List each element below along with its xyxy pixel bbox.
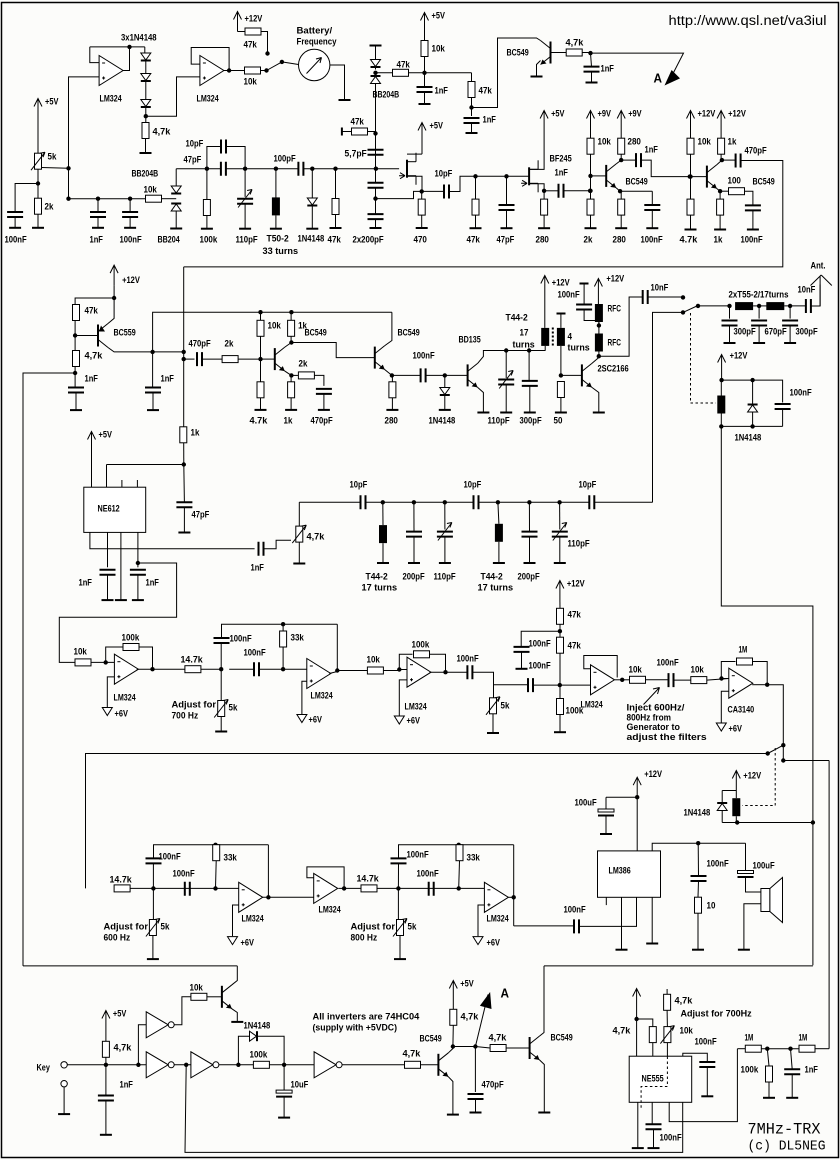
wire bbox=[91, 452, 93, 488]
capacitor 1nF bbox=[145, 388, 161, 393]
transistor BC549 bbox=[706, 166, 708, 188]
antenna bbox=[811, 275, 832, 306]
svg-text:4,7k: 4,7k bbox=[489, 1033, 507, 1044]
wire bbox=[729, 306, 731, 319]
junction bbox=[527, 500, 531, 504]
wire bias rail bbox=[153, 312, 392, 352]
ground bbox=[470, 227, 482, 229]
wire emitter bbox=[478, 387, 484, 412]
svg-text:+12V: +12V bbox=[245, 14, 263, 25]
wire bbox=[238, 31, 245, 33]
wire varactor column bbox=[375, 83, 377, 169]
ground bbox=[724, 342, 736, 344]
svg-text:LM324: LM324 bbox=[487, 914, 510, 925]
wire bbox=[514, 925, 574, 927]
svg-text:100nF: 100nF bbox=[407, 850, 429, 861]
svg-text:10k: 10k bbox=[698, 137, 712, 148]
svg-text:100k: 100k bbox=[122, 633, 140, 644]
pin wire bbox=[637, 1102, 639, 1147]
ground +6V bbox=[102, 708, 112, 716]
wire bbox=[543, 191, 545, 199]
IC NE612 bbox=[84, 487, 146, 532]
svg-text:BB204B: BB204B bbox=[132, 169, 159, 180]
wire bbox=[697, 881, 700, 897]
svg-text:100nF: 100nF bbox=[564, 905, 586, 916]
svg-text:33k: 33k bbox=[467, 853, 481, 864]
pin wire bbox=[621, 897, 623, 949]
wire base bbox=[261, 358, 275, 360]
svg-text:10k: 10k bbox=[190, 983, 204, 994]
junction bbox=[696, 841, 700, 845]
junction bbox=[104, 660, 108, 664]
resistor 100k bbox=[123, 644, 139, 651]
junction bbox=[727, 304, 731, 308]
ground bbox=[753, 342, 765, 344]
svg-text:BB204: BB204 bbox=[158, 235, 181, 246]
capacitor 1nF bbox=[68, 388, 84, 393]
wire bbox=[697, 843, 699, 876]
ground bbox=[585, 227, 597, 229]
ground bbox=[685, 229, 697, 231]
wire bbox=[674, 679, 691, 681]
pin wire bbox=[106, 465, 108, 488]
wire bbox=[737, 1048, 745, 1050]
wire bbox=[342, 131, 352, 133]
wire bbox=[238, 358, 260, 360]
svg-text:10pF: 10pF bbox=[464, 480, 482, 491]
svg-text:+6V: +6V bbox=[729, 724, 743, 735]
svg-text:1k: 1k bbox=[728, 137, 737, 148]
wire key rail bbox=[23, 965, 237, 967]
wire bbox=[560, 346, 562, 376]
wire collector bbox=[592, 358, 599, 364]
wire bbox=[590, 215, 592, 228]
svg-text:10pF: 10pF bbox=[350, 480, 368, 491]
svg-text:110pF: 110pF bbox=[434, 572, 456, 583]
wire + input bbox=[721, 691, 729, 722]
ground bbox=[370, 227, 382, 229]
junction pot tap bbox=[66, 166, 70, 170]
inductor RFC bbox=[595, 304, 603, 322]
wire bbox=[129, 217, 131, 228]
svg-text:1k: 1k bbox=[191, 428, 200, 439]
wire bbox=[591, 72, 593, 82]
wire collector bbox=[616, 160, 621, 164]
inverter 74HC04 bbox=[191, 1052, 213, 1078]
resistor 47k bbox=[472, 199, 479, 215]
wire bbox=[474, 1047, 476, 1093]
junction bbox=[688, 174, 692, 178]
ground bbox=[714, 229, 726, 231]
capacitor 1nF bbox=[98, 1096, 114, 1101]
wire - input bbox=[721, 678, 729, 680]
trimmer 4,7k bbox=[296, 526, 303, 542]
junction bbox=[182, 350, 186, 354]
wire bbox=[229, 668, 254, 670]
svg-text:100nF: 100nF bbox=[413, 351, 435, 362]
wire output bbox=[263, 896, 314, 898]
wire bbox=[377, 887, 484, 889]
ground bbox=[615, 227, 627, 229]
wire audio to filter2 bbox=[86, 754, 768, 889]
resistor 10k bbox=[75, 659, 91, 666]
ground bbox=[616, 949, 628, 951]
resistor 47k bbox=[332, 199, 339, 215]
ground bbox=[632, 1147, 644, 1149]
supply +12V bbox=[717, 111, 725, 131]
svg-text:50: 50 bbox=[554, 416, 563, 427]
svg-text:300pF: 300pF bbox=[796, 327, 818, 338]
capacitor 1nF bbox=[784, 1069, 800, 1074]
resistor 100 bbox=[729, 188, 745, 195]
resistor 10k bbox=[691, 677, 707, 684]
ground bbox=[470, 1112, 482, 1114]
wire collector bbox=[385, 312, 392, 345]
svg-text:300pF: 300pF bbox=[520, 416, 542, 427]
supply +5V bbox=[421, 13, 429, 33]
svg-text:T50-2: T50-2 bbox=[267, 234, 289, 245]
wire bbox=[63, 1087, 65, 1114]
svg-text:LM324: LM324 bbox=[319, 905, 342, 916]
svg-text:+5V: +5V bbox=[113, 1009, 127, 1020]
resistor 47k bbox=[557, 637, 564, 653]
svg-text:A: A bbox=[654, 71, 663, 86]
varactor BB204B upper bbox=[371, 60, 381, 67]
ground bbox=[477, 412, 489, 414]
svg-text:100nF: 100nF bbox=[529, 639, 551, 650]
wire bbox=[145, 82, 147, 100]
wire base bbox=[551, 52, 567, 54]
wire bbox=[559, 537, 561, 563]
diode 1N4148 bbox=[440, 388, 450, 395]
svg-text:2x200pF: 2x200pF bbox=[353, 235, 384, 246]
junction bbox=[335, 668, 339, 672]
capacitor 100nF bbox=[574, 919, 579, 933]
svg-text:10pF: 10pF bbox=[186, 139, 204, 150]
transistor BD135 bbox=[467, 364, 469, 386]
wire drain bbox=[407, 153, 422, 155]
svg-text:1N4148: 1N4148 bbox=[298, 234, 325, 245]
wire rail down bbox=[336, 624, 338, 671]
transistor BC549 bbox=[529, 1037, 531, 1059]
capacitor 100nF bbox=[421, 368, 426, 382]
wire bbox=[244, 169, 246, 197]
wire bbox=[244, 204, 246, 229]
varactor BB204 upper bbox=[171, 186, 181, 193]
ground bbox=[692, 949, 704, 951]
wire bbox=[375, 46, 377, 60]
wire source bbox=[407, 176, 422, 191]
junction bbox=[73, 333, 77, 337]
wire output bbox=[752, 684, 767, 686]
svg-text:100nF: 100nF bbox=[417, 869, 439, 880]
resistor 14.7k bbox=[114, 885, 130, 892]
svg-text:LM324: LM324 bbox=[197, 94, 220, 105]
wire bbox=[559, 502, 561, 529]
wire bbox=[735, 791, 737, 799]
wire bbox=[620, 131, 622, 139]
junction switch common bbox=[280, 60, 284, 64]
wire pot tap bbox=[42, 167, 69, 170]
svg-text:100k: 100k bbox=[200, 235, 218, 246]
svg-text:turns: turns bbox=[513, 340, 535, 351]
svg-text:+5V: +5V bbox=[460, 979, 474, 990]
svg-text:10k: 10k bbox=[629, 665, 643, 676]
wire bbox=[498, 542, 500, 563]
resistor 4,7k bbox=[664, 994, 671, 1010]
op-amp LM324 bbox=[239, 882, 263, 912]
wire bbox=[706, 1067, 708, 1096]
svg-text:2xT55-2/17turns: 2xT55-2/17turns bbox=[729, 290, 789, 301]
svg-text:5k: 5k bbox=[48, 152, 57, 163]
svg-text:1N4148: 1N4148 bbox=[684, 808, 711, 819]
resistor 10k bbox=[245, 67, 261, 74]
pin bbox=[136, 480, 138, 487]
svg-text:100k: 100k bbox=[412, 640, 430, 651]
relay coil bbox=[732, 798, 740, 816]
transistor BC549 Q2 bbox=[274, 348, 276, 370]
wire bbox=[479, 501, 590, 503]
svg-text:47pF: 47pF bbox=[497, 235, 515, 246]
wire bbox=[698, 305, 730, 307]
trimmer 5k bbox=[490, 698, 497, 714]
junction bbox=[281, 622, 285, 626]
wire to meter bbox=[282, 62, 299, 65]
resistor 4,7k bbox=[566, 49, 582, 56]
svg-text:+6V: +6V bbox=[241, 938, 255, 949]
svg-text:10k: 10k bbox=[244, 77, 258, 88]
wire collector bbox=[717, 160, 722, 165]
inductor T55-2 bbox=[735, 302, 753, 310]
wire bbox=[105, 1101, 107, 1135]
wire emitter bbox=[285, 371, 292, 375]
ground bbox=[170, 228, 182, 230]
svg-text:10uF: 10uF bbox=[291, 1080, 309, 1091]
svg-text:10: 10 bbox=[707, 901, 716, 912]
wire bbox=[399, 936, 401, 959]
wire bbox=[707, 679, 729, 681]
svg-text:+5V: +5V bbox=[430, 121, 444, 132]
svg-text:1k: 1k bbox=[714, 235, 723, 246]
svg-text:All inverters are 74HC04: All inverters are 74HC04 bbox=[313, 1012, 420, 1023]
svg-text:+12V: +12V bbox=[730, 351, 748, 362]
svg-text:2k: 2k bbox=[299, 359, 308, 370]
svg-text:1nF: 1nF bbox=[483, 115, 497, 126]
wire bbox=[719, 191, 721, 199]
wire filter bus bbox=[299, 501, 360, 503]
wire bbox=[314, 375, 324, 386]
wire TX feed column bbox=[183, 267, 185, 428]
wire bbox=[430, 654, 446, 672]
capacitor 100nF bbox=[644, 205, 660, 210]
supply +5V bbox=[88, 432, 96, 452]
ground bbox=[738, 949, 750, 951]
wire bbox=[559, 601, 561, 609]
junction bbox=[112, 296, 116, 300]
wire bbox=[475, 1099, 477, 1112]
wire bbox=[745, 191, 753, 205]
wire bbox=[621, 159, 636, 161]
wire bbox=[226, 168, 298, 170]
wire bbox=[752, 380, 754, 404]
wire bbox=[323, 394, 325, 410]
junction TX contact bbox=[681, 295, 685, 299]
wire bbox=[590, 131, 592, 139]
wire - input bbox=[399, 669, 407, 671]
wire bbox=[584, 310, 599, 326]
wire bbox=[646, 679, 669, 681]
svg-text:100nF: 100nF bbox=[660, 1133, 682, 1144]
wire + input bbox=[107, 677, 114, 708]
wire bbox=[746, 877, 761, 892]
resistor 1M bbox=[799, 1045, 815, 1052]
junction bbox=[213, 886, 217, 890]
junction bbox=[634, 1017, 638, 1021]
capacitor 10uF bbox=[276, 1090, 292, 1093]
transformer T44-2 secondary bbox=[557, 328, 565, 346]
trimmer arrow bbox=[438, 523, 452, 541]
switch lever bbox=[768, 745, 784, 753]
svg-text:CA3140: CA3140 bbox=[728, 705, 755, 716]
junction bbox=[496, 500, 500, 504]
svg-text:+12V: +12V bbox=[606, 274, 624, 285]
wire collector bbox=[448, 1047, 453, 1053]
svg-text:+9V: +9V bbox=[598, 109, 612, 120]
capacitor 100nF bbox=[214, 638, 230, 643]
junction bbox=[342, 886, 346, 890]
wire bbox=[290, 312, 292, 320]
wire PA output bbox=[599, 297, 643, 356]
wire bbox=[605, 797, 607, 809]
inductor RFC bbox=[595, 334, 603, 352]
junction bbox=[719, 676, 723, 680]
capacitor 10pF bbox=[444, 185, 449, 199]
wire bbox=[183, 443, 185, 465]
svg-text:1nF: 1nF bbox=[645, 145, 659, 156]
resistor 33k bbox=[280, 631, 287, 647]
svg-text:BB204B: BB204B bbox=[373, 90, 400, 101]
wire bbox=[14, 217, 16, 228]
svg-text:Frequency: Frequency bbox=[297, 37, 338, 48]
wire bbox=[735, 816, 737, 822]
junction bbox=[422, 71, 426, 75]
svg-text:470pF: 470pF bbox=[482, 1080, 504, 1091]
junction bbox=[104, 1063, 108, 1067]
junction bbox=[184, 1063, 188, 1067]
junction diode chain bottom bbox=[144, 114, 148, 118]
svg-text:470pF: 470pF bbox=[745, 146, 767, 157]
resistor 47k bbox=[557, 608, 564, 624]
supply +5V bbox=[540, 111, 548, 131]
wire bbox=[560, 398, 562, 413]
svg-text:10nF: 10nF bbox=[651, 283, 669, 294]
ground bbox=[646, 227, 658, 229]
wire to A bbox=[591, 53, 684, 76]
capacitor 47pF bbox=[499, 205, 515, 210]
wire output bbox=[338, 887, 361, 889]
wire bbox=[375, 67, 377, 70]
inverter 74HC04 bbox=[314, 1052, 336, 1078]
capacitor 100nF bbox=[514, 647, 530, 652]
capacitor 100nF bbox=[391, 858, 407, 863]
junction bbox=[443, 500, 447, 504]
junction bbox=[557, 500, 561, 504]
wire to switch contact bbox=[261, 32, 268, 54]
wire bbox=[260, 312, 262, 320]
wire opamp1 + input to VFO bus bbox=[69, 77, 100, 199]
transistor BC549 Q3 bbox=[374, 347, 376, 369]
wire sidetone key rail bbox=[544, 965, 813, 967]
capacitor 1nF bbox=[100, 570, 116, 575]
speaker bbox=[761, 889, 770, 912]
svg-text:LM324: LM324 bbox=[581, 700, 604, 711]
wire bbox=[226, 147, 245, 169]
svg-text:RFC: RFC bbox=[608, 304, 621, 315]
svg-text:LM324: LM324 bbox=[242, 914, 265, 925]
junction bbox=[469, 105, 473, 109]
resistor 4,7k bbox=[450, 1009, 457, 1025]
resistor 33k bbox=[213, 845, 220, 861]
diode 1N4148 bbox=[307, 198, 317, 205]
wire opamp2 feedback bbox=[191, 48, 229, 71]
svg-text:5,7pF: 5,7pF bbox=[345, 149, 367, 160]
svg-text:100nF: 100nF bbox=[244, 648, 266, 659]
resistor 50 bbox=[557, 382, 564, 398]
resistor 280 bbox=[389, 382, 396, 398]
wire bbox=[506, 1047, 529, 1049]
svg-text:470pF: 470pF bbox=[189, 339, 211, 350]
svg-text:Battery/: Battery/ bbox=[297, 26, 333, 37]
wire bbox=[449, 176, 471, 191]
wire to LM386 input bbox=[579, 897, 637, 926]
ground bbox=[487, 732, 499, 734]
wire bbox=[528, 502, 530, 531]
svg-text:100nF: 100nF bbox=[790, 388, 812, 399]
wire bbox=[744, 904, 761, 949]
svg-text:100uF: 100uF bbox=[575, 798, 597, 809]
junction RX contact bbox=[681, 310, 685, 314]
resistor 2k bbox=[222, 356, 238, 363]
svg-text:4,7k: 4,7k bbox=[85, 351, 103, 362]
svg-text:4: 4 bbox=[568, 332, 573, 343]
wire bbox=[544, 190, 558, 192]
junction bbox=[588, 189, 592, 193]
ground bbox=[339, 99, 351, 101]
junction bbox=[788, 1047, 792, 1051]
junction bbox=[151, 886, 155, 890]
junction switch contact B bbox=[265, 51, 269, 55]
junction bbox=[282, 1063, 286, 1067]
wire bbox=[758, 326, 760, 343]
wire bbox=[275, 169, 277, 198]
ground +6V bbox=[394, 716, 404, 724]
svg-text:1M: 1M bbox=[745, 1033, 754, 1044]
ground +6V bbox=[716, 723, 726, 731]
junction bbox=[451, 1044, 455, 1048]
ground bbox=[524, 562, 536, 564]
junction bbox=[719, 378, 723, 382]
terminal bbox=[370, 45, 382, 47]
wire bbox=[758, 306, 760, 319]
wire supply rail bbox=[606, 796, 637, 798]
wire bbox=[382, 543, 384, 562]
capacitor 100uF bbox=[598, 809, 614, 812]
capacitor 47pF bbox=[221, 162, 226, 176]
capacitor 1nF bbox=[636, 153, 641, 167]
wire bbox=[304, 168, 399, 170]
pin wire bbox=[683, 1053, 708, 1062]
wire interstage bbox=[291, 343, 374, 358]
